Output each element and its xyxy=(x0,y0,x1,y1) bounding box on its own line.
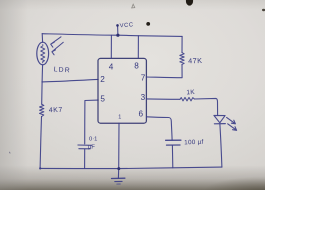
svg-text:3: 3 xyxy=(141,93,146,102)
junction dot: bottom-left corner xyxy=(39,167,41,169)
wire: 47K to pin7 xyxy=(146,64,182,77)
wire: bottom rail xyxy=(40,167,222,169)
wire: pin4 to top rail xyxy=(110,35,112,58)
junction dot: ground stub on bottom rail xyxy=(117,167,120,170)
svg-text:µF: µF xyxy=(88,145,95,151)
LED D1 cathode bar xyxy=(214,123,225,125)
wire: 47K branch from rail down xyxy=(181,36,183,52)
wire: LED cathode down to rail xyxy=(220,124,222,167)
svg-text:0·1: 0·1 xyxy=(89,137,97,143)
LED D1 triangle xyxy=(214,115,225,122)
svg-text:5: 5 xyxy=(100,95,105,104)
LDR R1 body xyxy=(37,42,49,65)
IC U1 555 timer body xyxy=(98,58,146,123)
svg-text:100 µf: 100 µf xyxy=(184,139,204,147)
smudge: tiny tick bottom-left xyxy=(8,152,11,154)
resistor 47K zigzag xyxy=(180,53,184,65)
svg-text:1: 1 xyxy=(118,115,121,121)
resistor 1K zigzag xyxy=(180,97,194,101)
wire: top rail xyxy=(42,34,182,37)
wire: pin5 branch (left then down to C1) xyxy=(85,100,99,144)
svg-text:8: 8 xyxy=(134,62,139,71)
capacitor C1 0.1uF bottom plate xyxy=(79,148,90,150)
wire: 1K to LED anode xyxy=(194,98,217,115)
svg-text:47K: 47K xyxy=(188,56,203,65)
svg-text:1K: 1K xyxy=(186,89,195,96)
wire: pin8 to top rail xyxy=(137,36,139,59)
LED light arrow 2 xyxy=(228,124,237,131)
wire: pin6 branch to C2 xyxy=(147,117,173,140)
capacitor C2 100uF top plate xyxy=(166,139,181,141)
LDR R1 internal zigzag xyxy=(41,45,45,63)
wire: left rail upper segment (to LDR top) xyxy=(41,34,43,43)
wire: left rail lower segment xyxy=(40,117,41,169)
paper background xyxy=(0,0,265,190)
svg-text:6: 6 xyxy=(139,110,144,119)
svg-text:VCC: VCC xyxy=(120,22,134,29)
capacitor C2 100uF bottom plate xyxy=(167,144,181,146)
LDR light arrow 2 xyxy=(52,42,63,55)
wire: pin2 to left rail xyxy=(42,79,98,82)
capacitor C1 0.1uF top plate xyxy=(78,144,92,146)
wire: C1 to bottom rail xyxy=(84,149,86,168)
ground symbol xyxy=(117,169,119,179)
VCC stub wire xyxy=(117,26,119,35)
VCC terminal dot xyxy=(116,24,119,27)
svg-text:4K7: 4K7 xyxy=(49,107,63,114)
svg-text:4: 4 xyxy=(109,63,114,72)
wire: pin1 to ground rail xyxy=(118,123,120,168)
LED light arrow 1 xyxy=(227,117,236,123)
svg-text:7: 7 xyxy=(141,74,146,83)
svg-text:LDR: LDR xyxy=(53,66,71,74)
junction dot: VCC tap on rail xyxy=(116,34,119,37)
smudge: dark ink blob xyxy=(146,22,150,26)
wire: C2 to bottom rail xyxy=(171,146,173,168)
smudge: small gray triangle mark xyxy=(132,4,135,8)
wire: pin3 to 1K xyxy=(146,98,180,100)
wire: left rail middle segment xyxy=(41,65,44,104)
smudge: speck at right edge xyxy=(262,9,265,11)
svg-text:2: 2 xyxy=(100,75,105,84)
resistor 4K7 zigzag xyxy=(40,104,44,116)
LDR light arrow 1 xyxy=(51,37,61,47)
smudge: black blob at top edge xyxy=(186,0,193,6)
